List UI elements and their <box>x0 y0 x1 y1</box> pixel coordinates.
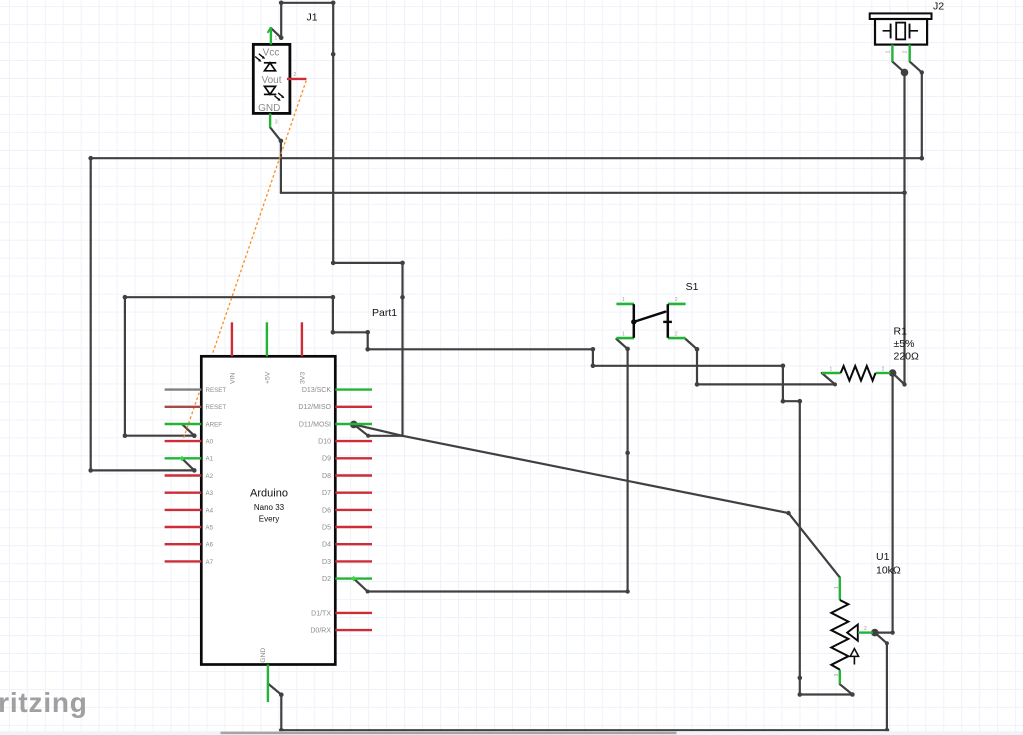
pin D3 <box>335 560 372 562</box>
wire vertical x=783 <box>782 366 784 401</box>
wire horizontal to AREF <box>125 435 194 437</box>
wire D11 short diagonal <box>354 424 368 435</box>
pin D4 <box>335 543 372 545</box>
pin D12/MISO <box>335 406 372 408</box>
svg-text:Part1: Part1 <box>372 307 397 319</box>
svg-text:Vout: Vout <box>261 75 281 86</box>
wire vertical x=402 down to D11 junction <box>401 263 403 436</box>
svg-text:AREF: AREF <box>206 421 223 428</box>
pin GND <box>267 665 269 703</box>
svg-text:2: 2 <box>903 50 909 53</box>
resistor R1 <box>822 366 891 381</box>
pin D13/SCK <box>335 388 372 390</box>
wire horizontal y=366 <box>593 365 783 367</box>
pin D11/MOSI <box>335 423 372 425</box>
svg-text:2: 2 <box>864 626 867 632</box>
wire vertical x=281 <box>280 141 282 193</box>
sensor J1 <box>253 44 290 113</box>
wire D11 straight diagonal <box>354 424 403 435</box>
svg-text:D2: D2 <box>322 576 331 583</box>
wire vertical to top <box>280 3 282 38</box>
switch S1 <box>616 297 685 338</box>
svg-text:3V3: 3V3 <box>299 372 306 384</box>
wire horizontal y=384 to R1 <box>697 383 835 385</box>
node A1 attach <box>179 456 184 461</box>
potentiometer U1 <box>831 577 873 684</box>
wire horizontal to A1 <box>91 469 195 471</box>
piezo speaker J2 <box>870 13 932 44</box>
svg-text:D6: D6 <box>322 507 331 514</box>
pin 3V3 <box>301 322 303 356</box>
junction J2 pin1 <box>901 69 909 77</box>
pin 1 top <box>616 303 634 306</box>
pin 2 top <box>668 303 686 306</box>
wire inner-rect vertical x=125 <box>124 297 126 436</box>
svg-text:VIN: VIN <box>229 373 236 384</box>
diode symbol (lower) <box>265 86 276 94</box>
svg-text:Vcc: Vcc <box>263 48 280 59</box>
svg-text:1: 1 <box>622 331 625 337</box>
wire step right y=332 <box>333 331 368 333</box>
svg-text:2: 2 <box>882 367 885 373</box>
pin 2 J2 <box>909 45 911 62</box>
svg-text:D10: D10 <box>318 439 331 446</box>
pin A2 <box>165 474 202 476</box>
wire step down x=333 <box>332 297 334 332</box>
pin +5V <box>266 322 268 356</box>
svg-text:D13/SCK: D13/SCK <box>302 387 332 394</box>
wire vertical x=281 GND <box>280 695 282 731</box>
wire long diagonal to pot <box>403 436 789 513</box>
svg-text:2: 2 <box>675 297 678 303</box>
node D2 attach <box>351 576 356 581</box>
wire J1.GND diagonal <box>270 127 281 141</box>
pin D5 <box>335 526 372 528</box>
pin AREF <box>165 423 202 425</box>
pin A5 <box>165 526 202 528</box>
svg-text:2: 2 <box>675 331 678 337</box>
scrollbar thumb <box>221 732 677 735</box>
pin A6 <box>165 543 202 545</box>
svg-text:A1: A1 <box>206 456 214 463</box>
wire step down x=368 <box>367 332 369 349</box>
wire step right y=401 <box>783 400 800 402</box>
pin 2 pot <box>858 631 873 633</box>
svg-text:J1: J1 <box>307 12 318 24</box>
svg-text:A7: A7 <box>206 559 214 566</box>
pin 2 J1.Vout <box>287 78 307 80</box>
pin 2 bottom <box>668 337 686 340</box>
wire long horizontal y=349 <box>368 348 593 350</box>
pin RESET <box>165 388 202 390</box>
svg-text:fritzing: fritzing <box>0 687 88 718</box>
zigzag <box>841 366 876 381</box>
pin D6 <box>335 509 372 511</box>
pin 3 pot <box>839 670 841 685</box>
wire R1 diagonal to J2 vertical <box>893 373 905 384</box>
pin 1 J2 <box>891 45 893 62</box>
wire diagonal into AREF pin <box>182 424 194 436</box>
svg-text:1: 1 <box>834 586 840 589</box>
pin A7 <box>165 560 202 562</box>
wire Arduino GND diagonal <box>268 684 281 695</box>
pin 1 pot <box>839 577 841 600</box>
svg-text:D11/MOSI: D11/MOSI <box>299 421 331 428</box>
wire J2 pin2 diagonal <box>910 62 922 73</box>
wire D2 horizontal y=591 <box>368 590 628 592</box>
switch body bars <box>633 304 636 338</box>
wire vertical x=887 down <box>886 643 888 730</box>
pin A1 <box>165 457 202 459</box>
pin 2 R1 <box>876 372 891 374</box>
pin 1 J1.Vcc <box>270 27 272 44</box>
wire J2 pin1 vertical down to R1 <box>903 72 905 384</box>
wire step down x=593 <box>592 349 594 366</box>
svg-text:1: 1 <box>886 50 892 53</box>
wire S1 pin2 vertical <box>696 349 698 384</box>
svg-text:RESET: RESET <box>206 404 227 411</box>
pin 3 J1.GND <box>269 113 271 127</box>
pin D10 <box>335 440 372 442</box>
wire S1 pin1 diagonal <box>616 339 627 349</box>
wire vertical x=333 down <box>332 3 334 263</box>
svg-text:A3: A3 <box>206 490 214 497</box>
wire long horizontal y=193 <box>281 192 905 194</box>
svg-text:D9: D9 <box>322 456 331 463</box>
svg-text:D7: D7 <box>322 490 331 497</box>
scrollbar track <box>0 731 1023 735</box>
pin VIN <box>231 322 233 356</box>
svg-text:1: 1 <box>622 297 625 303</box>
svg-text:GND: GND <box>260 648 267 663</box>
svg-text:10kΩ: 10kΩ <box>876 565 901 577</box>
pin A3 <box>165 492 202 494</box>
wire J2 pin1 diagonal <box>892 62 904 73</box>
svg-text:U1: U1 <box>876 551 890 563</box>
svg-text:GND: GND <box>258 103 280 114</box>
svg-text:3: 3 <box>275 120 278 126</box>
wire long horizontal y=158 A1 to J2.2 <box>91 157 922 159</box>
pin D0/RX <box>335 629 372 631</box>
svg-text:D8: D8 <box>322 473 331 480</box>
svg-text:1: 1 <box>275 36 278 42</box>
pot arrow symbol <box>853 653 855 665</box>
wire J1.Vcc diagonal <box>271 28 281 38</box>
svg-text:RESET: RESET <box>206 387 227 394</box>
wire diagonal into pot pin3 <box>840 684 853 694</box>
pin D2 <box>335 577 372 579</box>
svg-text:2: 2 <box>294 72 297 78</box>
wire diagonal into R1 pin1 <box>822 373 835 384</box>
svg-text:D3: D3 <box>322 559 331 566</box>
svg-text:R1: R1 <box>894 326 908 338</box>
wire pot pin2 diagonal down <box>875 633 887 644</box>
zigzag vertical <box>831 600 848 670</box>
wire top horizontal <box>281 2 333 4</box>
pin D8 <box>335 474 372 476</box>
svg-text:D0/RX: D0/RX <box>310 628 331 635</box>
svg-text:A2: A2 <box>206 473 214 480</box>
svg-text:D5: D5 <box>322 524 331 531</box>
wire vertical x=893 down to pot pin2 <box>891 373 893 633</box>
junction R1 pin2 <box>889 369 897 377</box>
lever <box>631 319 636 324</box>
svg-text:A4: A4 <box>206 507 214 514</box>
pin D9 <box>335 457 372 459</box>
wiper triangle <box>847 625 858 641</box>
svg-text:Arduino: Arduino <box>250 488 288 500</box>
svg-text:220Ω: 220Ω <box>894 351 920 363</box>
wire vertical x=800 down <box>799 401 801 694</box>
pin RESET <box>165 406 202 408</box>
pin A4 <box>165 509 202 511</box>
wire J2 pin2 vertical <box>921 72 923 158</box>
wire inner-rect top horizontal y=297 <box>125 296 333 298</box>
wire horizontal to pot pin3 <box>800 693 853 695</box>
contact tick <box>663 321 672 323</box>
svg-text:D4: D4 <box>322 542 331 549</box>
wire S1 pin2 diagonal <box>686 339 697 349</box>
svg-text:Nano 33: Nano 33 <box>254 503 285 512</box>
junction D11/MOSI <box>350 421 358 429</box>
svg-text:A5: A5 <box>206 524 214 531</box>
pin 1 bottom <box>616 337 634 340</box>
svg-text:Every: Every <box>259 515 279 524</box>
svg-text:±5%: ±5% <box>894 338 915 350</box>
pin A0 <box>165 440 202 442</box>
svg-text:1: 1 <box>830 367 833 373</box>
ratsnest J1.Vout-A0 (orange dashed) <box>183 81 307 442</box>
svg-text:S1: S1 <box>686 281 699 293</box>
wire pot pin2 horizontal <box>875 631 893 633</box>
wire S1 pin1 vertical x=628 <box>626 349 628 592</box>
svg-text:D1/TX: D1/TX <box>311 610 331 617</box>
pin 1 R1 <box>822 372 841 374</box>
wire D11 short horizontal <box>368 435 402 437</box>
photodiode symbol (upper) <box>264 62 276 64</box>
svg-text:3: 3 <box>834 674 840 677</box>
wire bottom horizontal y=730 <box>281 729 887 731</box>
pin D7 <box>335 492 372 494</box>
svg-text:A0: A0 <box>206 439 214 446</box>
wire left vertical x=91 <box>90 158 92 470</box>
wire horizontal y=263 <box>333 262 402 264</box>
wire diagonal into A1 pin <box>182 459 194 471</box>
Arduino Nano 33 Every U2 <box>201 356 335 664</box>
svg-text:A6: A6 <box>206 542 214 549</box>
svg-text:J2: J2 <box>933 1 944 13</box>
svg-text:+5V: +5V <box>264 371 271 384</box>
crystal symbol <box>883 30 891 32</box>
svg-text:D12/MISO: D12/MISO <box>298 404 331 411</box>
pin D1/TX <box>335 612 372 614</box>
junction pot pin2 <box>871 629 879 637</box>
wire diagonal into pot pin1 <box>789 513 840 577</box>
wire D2 diagonal <box>354 579 368 592</box>
